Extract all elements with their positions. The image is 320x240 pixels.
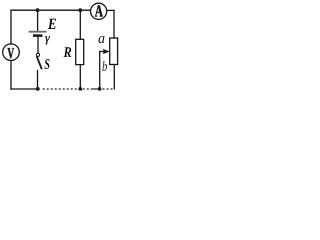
ammeter letter A xyxy=(95,5,103,16)
wire bottom dashed segment 1 xyxy=(43,88,92,90)
wire left edge lower vertical xyxy=(10,61,12,90)
junction dot wiper bottom xyxy=(98,87,102,91)
label E xyxy=(48,19,56,29)
battery E short plate (-) xyxy=(33,34,42,37)
wire rheostat bottom vertical xyxy=(113,65,115,90)
wire bottom solid segment xyxy=(11,88,38,90)
label a xyxy=(98,36,104,43)
junction dot battery top xyxy=(36,8,40,12)
wire R branch top vertical xyxy=(79,10,81,39)
wire R branch bottom vertical xyxy=(79,65,81,89)
voltmeter letter V xyxy=(8,48,15,58)
rheostat wiper arrowhead xyxy=(103,49,110,54)
label R xyxy=(64,47,72,57)
junction dot R top xyxy=(78,8,82,12)
wire battery top vertical xyxy=(37,10,39,31)
wire right edge vertical xyxy=(113,10,115,38)
wire left edge upper vertical xyxy=(10,10,12,44)
wire wiper horizontal xyxy=(100,51,105,53)
battery E long plate (+) xyxy=(29,31,47,33)
wire wiper vertical xyxy=(99,52,101,90)
junction dot R bottom xyxy=(78,87,82,91)
label b xyxy=(102,61,107,71)
wire switch to bottom xyxy=(37,70,39,89)
wire top horizontal xyxy=(11,9,91,11)
ammeter A circle xyxy=(91,3,107,19)
rheostat ab box xyxy=(110,38,118,65)
resistor R box xyxy=(76,39,84,64)
label S xyxy=(44,59,49,69)
switch S blade xyxy=(37,56,42,69)
label gamma (internal resistance) xyxy=(45,36,50,45)
voltmeter V circle xyxy=(3,44,20,61)
junction dot switch bottom xyxy=(36,87,40,91)
switch S pivot circle xyxy=(36,53,39,56)
wire bottom solid joint at wiper junction xyxy=(92,88,102,90)
wire battery to switch xyxy=(37,37,39,53)
wire bottom dashed segment 2 xyxy=(103,88,115,90)
wire ammeter to top-right corner xyxy=(107,9,114,11)
